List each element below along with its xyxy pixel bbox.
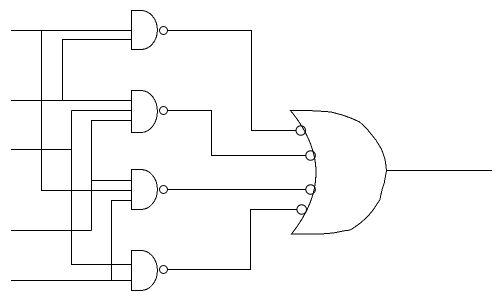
wire input I1 [11, 30, 132, 32]
wire branch I5 to U3 input C [112, 201, 132, 281]
nand-gate U3 output bubble [160, 186, 168, 194]
wire U4 output to U5 input 4 [168, 210, 297, 270]
nand-gate U4 output bubble [160, 266, 168, 274]
wire U2 output to U5 input 2 [168, 111, 306, 156]
wire branch I2 to U1 input B [63, 40, 132, 101]
wire branch I1 to U3 input B [42, 31, 132, 191]
wire input I3 [11, 149, 72, 151]
wire input I2 [11, 100, 132, 102]
nor-gate U5 input bubble 3 [306, 185, 316, 195]
nand-gate U2 body [132, 91, 158, 133]
nand-gate U4 body [132, 251, 158, 291]
nand-gate U2 output bubble [160, 107, 168, 115]
nand-gate U1 body [132, 11, 158, 50]
wire U1 output to U5 input 1 [168, 31, 297, 131]
wire input I5 [11, 280, 132, 282]
nor-gate U5 input bubble 4 [297, 205, 307, 215]
wire U3 output to U5 input 3 [168, 189, 306, 191]
nand-gate U3 body [132, 170, 158, 210]
wire branch I4 to U2 input C and U3 input A [92, 121, 132, 231]
nor-gate U5 input bubble 2 [306, 151, 316, 161]
nor-gate U5 body [291, 111, 387, 235]
wire U5 output [387, 170, 493, 172]
wire input I4 [11, 230, 92, 232]
nand-gate U1 output bubble [160, 27, 168, 35]
nor-gate U5 input bubble 1 [296, 126, 306, 136]
wire branch I3 to U2 input B and U4 input A [72, 111, 132, 265]
